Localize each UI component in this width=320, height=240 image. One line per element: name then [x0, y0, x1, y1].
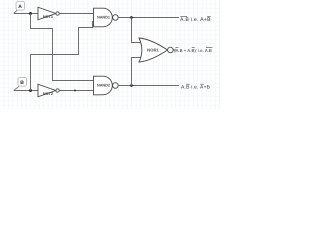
svg-text:A.B i.e. A+B: A.B i.e. A+B: [181, 85, 211, 91]
wire join dot: [74, 90, 76, 92]
nor gate NOR1: [139, 38, 173, 62]
wire NAND1 output: [118, 17, 179, 19]
svg-text:NAND2: NAND2: [97, 84, 110, 88]
wire B input: [14, 90, 38, 92]
input pin A: [14, 2, 25, 14]
wire NAND2 out to NOR1 bottom input: [132, 58, 142, 86]
wire NOT2 output to NAND2: [59, 90, 93, 92]
inverter NOT2: [38, 84, 59, 97]
input pin B: [14, 78, 27, 91]
svg-text:NOR1: NOR1: [147, 47, 159, 52]
svg-text:A: A: [18, 4, 22, 10]
wire A input: [14, 13, 38, 15]
wire NOT1 output to NAND1: [59, 13, 93, 15]
wire NOR1 output: [173, 49, 176, 51]
inverter NOT1: [38, 7, 59, 20]
nand gate NAND2: [94, 76, 119, 95]
node NAND1 out junction: [130, 16, 133, 19]
label NAND2 output: [181, 84, 211, 90]
wire NAND1 out to NOR1 top input: [132, 18, 142, 43]
label NOR1 output: [174, 47, 212, 53]
svg-text:NOT2: NOT2: [43, 92, 53, 96]
svg-text:A.B i.e. A+B: A.B i.e. A+B: [180, 17, 211, 23]
node A junction: [29, 12, 32, 15]
svg-text:NOT1: NOT1: [43, 15, 53, 19]
svg-text:(A.B + A.B)' i.e. A.B: (A.B + A.B)' i.e. A.B: [174, 48, 212, 53]
node NAND2 out junction: [130, 84, 133, 87]
svg-text:B: B: [20, 80, 24, 86]
nand gate NAND1: [94, 8, 119, 27]
svg-text:NAND1: NAND1: [97, 16, 110, 20]
wire NAND2 output: [118, 85, 179, 87]
wire A branch down to NAND2 top input: [31, 14, 94, 81]
node B junction: [29, 89, 32, 92]
wire B branch up to NAND1 bottom input: [31, 22, 95, 91]
label NAND1 output: [180, 16, 211, 23]
